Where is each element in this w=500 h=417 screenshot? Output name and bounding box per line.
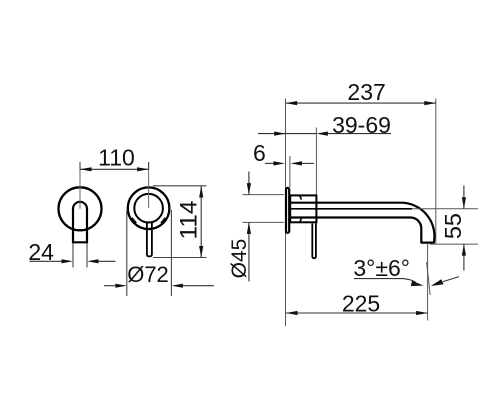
dimension O45 arrow bottom [247, 222, 251, 234]
dimension 6 line left [265, 162, 274, 164]
spout tube outline [290, 203, 434, 243]
left handle centerline [79, 162, 81, 209]
dimension O45 line top [248, 172, 250, 195]
dimension 110 arrow right [137, 167, 149, 171]
dimension 110 extension line left [79, 162, 81, 169]
dimension 55 arrow top [462, 197, 466, 209]
dimension 39-69 arrow right [316, 132, 328, 136]
svg-text:237: 237 [347, 79, 385, 105]
svg-text:55: 55 [440, 213, 466, 239]
dimension 225 arrow left [286, 311, 298, 315]
svg-text:6: 6 [253, 140, 266, 166]
left handle lever (front view) [73, 202, 87, 242]
sleeve seam bottom [299, 218, 301, 222]
dimension 114 arrow top [199, 186, 203, 198]
dimension 24 arrow right [87, 259, 99, 263]
svg-text:114: 114 [175, 200, 202, 239]
svg-text:3°±6°: 3°±6° [353, 255, 410, 281]
dimension 39-69 line right [328, 133, 391, 135]
dimension 225 line [286, 312, 428, 314]
dimension 24 line left [30, 260, 63, 262]
dimension 55 line bottom [463, 244, 465, 270]
angle arrow right [431, 279, 444, 286]
height 55 top extension line [412, 208, 478, 210]
dimension O45 arrow top [247, 183, 251, 195]
sleeve seam top [299, 196, 301, 200]
svg-text:24: 24 [28, 239, 54, 265]
dimension O72 line left [104, 285, 115, 287]
dimension 114 extension line top [153, 185, 207, 187]
svg-text:225: 225 [342, 291, 380, 317]
mixer lever (side view) [312, 224, 316, 259]
escutcheon sleeve (side view) [290, 195, 316, 222]
svg-text:Ø72: Ø72 [127, 262, 169, 287]
rosette seam arc lower-left [132, 218, 136, 223]
svg-text:39-69: 39-69 [332, 112, 391, 138]
angle leader right [443, 277, 459, 282]
dimension 225 arrow right [416, 311, 428, 315]
dimension 6 arrow right [291, 161, 303, 165]
rosette seam arc lower-right [161, 218, 165, 223]
dimension 39-69 arrow left [274, 132, 286, 136]
dimension 55 line top [463, 186, 465, 209]
angle leader underline [354, 279, 416, 283]
wall plate (side view) [286, 188, 289, 233]
water stream angled line [427, 262, 431, 295]
height 55 bottom extension line [430, 243, 478, 245]
mixer rosette inner circle [134, 194, 163, 223]
dimension O72 line right [183, 285, 214, 287]
angle arrow left [411, 281, 424, 286]
dimension 110 line [80, 168, 149, 170]
left handle rosette (front view) [59, 187, 102, 230]
mixer rosette outer circle (front view) [128, 187, 170, 229]
dimension 24 line right [99, 260, 116, 262]
water stream centerline [427, 244, 429, 321]
dimension O72 extension line left [126, 210, 128, 296]
valve depth extension line [315, 128, 317, 225]
dimension O72 arrow left [115, 284, 127, 288]
dimension 237 arrow left [286, 101, 298, 105]
dimension 24 extension line right [86, 244, 88, 268]
dimension 55 arrow bottom [462, 244, 466, 256]
dimension O72 extension line right [170, 210, 172, 296]
svg-text:110: 110 [98, 144, 135, 170]
dimension 237 arrow right [424, 101, 436, 105]
dimension 6 line right [302, 162, 314, 164]
dimension O45 extension line top [242, 194, 284, 196]
spout tip extension line [435, 99, 437, 244]
spout tube middle edge line [290, 208, 412, 210]
dimension 110 extension line right [148, 162, 150, 169]
mixer lever (front view) [147, 222, 152, 257]
dimension 114 extension line bottom [153, 257, 207, 259]
svg-text:Ø45: Ø45 [228, 239, 251, 279]
dimension 24 arrow left [62, 259, 74, 263]
dimension 110 arrow left [80, 167, 92, 171]
dimension 114 arrow bottom [199, 246, 203, 258]
dimension 114 line [200, 186, 202, 258]
dimension 24 extension line left [72, 244, 74, 268]
dimension O45 extension line bottom [242, 221, 284, 223]
dimension 6 arrow left [273, 161, 285, 165]
dimension 237 line [286, 102, 436, 104]
dimension 6 extension line right [289, 156, 291, 187]
dimension O45 line bottom [248, 222, 250, 281]
dimension O72 arrow right [171, 284, 183, 288]
dimension 39-69 line [258, 133, 316, 135]
mixer centerline [148, 162, 150, 208]
wall face extension line (side view) [285, 99, 287, 327]
